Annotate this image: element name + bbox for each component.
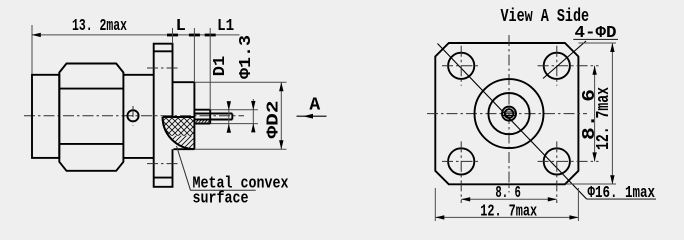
svg-text:13. 2max: 13. 2max (72, 17, 127, 36)
svg-text:12. 7max: 12. 7max (480, 203, 537, 222)
center boss outer circle (475, 79, 544, 148)
right arrow of 13.2max + L left arrow (meeting bold tick) (167, 34, 178, 37)
bolt hole bottom-right (544, 148, 570, 174)
flange hole centerline bottom (147, 163, 179, 165)
13.2max left extension (31, 25, 33, 74)
svg-text:4-ΦD: 4-ΦD (575, 24, 617, 43)
dielectric edges + extensions (194, 109, 210, 111)
right dimension 12.7max (vertical) (611, 43, 613, 184)
D1 dimension line (228, 101, 230, 132)
bushing face (193, 82, 195, 149)
L/L1 meeting arrows tick (189, 34, 200, 37)
square flange outline with chamfered corners (435, 43, 578, 184)
bottom dimension 8.6 (461, 198, 557, 200)
label Ф16.1max with underline (587, 198, 656, 200)
dielectric tip edge (209, 110, 211, 124)
dielectric section hatch (195, 120, 211, 124)
svg-text:D1: D1 (211, 56, 230, 76)
right dimension 8.6 (vertical) (594, 66, 596, 162)
leader line to metal convex surface (177, 146, 191, 190)
extension line at dielectric tip (209, 28, 211, 110)
svg-text:surface: surface (193, 189, 249, 208)
svg-text:L: L (176, 17, 186, 36)
bushing bottom edge + ФD2 bottom extension (174, 148, 195, 150)
flange chamfer line top (154, 50, 173, 52)
bolt hole top-right (544, 53, 570, 79)
rear cap cylinder (32, 75, 59, 158)
extension line at flange right edge (172, 28, 174, 44)
hex upper flat line (59, 88, 123, 90)
ФD2 dimension line (280, 82, 282, 149)
hex lower flat line (59, 143, 123, 145)
bolt hole bottom-left (448, 148, 474, 174)
hole circle vertical centerline tick (132, 106, 134, 126)
svg-text:Φ1.3: Φ1.3 (237, 35, 256, 79)
flange chamfer line bottom (154, 177, 173, 179)
left arrow of 13.2max (32, 33, 41, 37)
svg-text:8. 6: 8. 6 (495, 184, 520, 203)
Ф1.3 dimension line (252, 99, 254, 131)
bottom dimension 12.7max (435, 216, 578, 218)
svg-text:A: A (309, 96, 320, 116)
bump crosshatch upper zone (112, 94, 321, 172)
pin tip edge (231, 114, 233, 120)
svg-text:Φ16. 1max: Φ16. 1max (588, 184, 656, 203)
flange plate (side view) (154, 44, 173, 187)
L1 right arrows tick (205, 34, 216, 37)
svg-text:ΦD2: ΦD2 (265, 101, 284, 139)
svg-text:12. 7max: 12. 7max (594, 87, 614, 150)
label 4-ФD with leader (543, 41, 586, 79)
metal convex bump outline (quarter round) (163, 117, 195, 149)
diagonal leader through holes to Ф16.1max (438, 44, 587, 200)
hex nut body (59, 64, 123, 171)
center pin edges (194, 113, 232, 115)
barrel between hex and flange (123, 74, 153, 76)
small hole circle on barrel (127, 110, 138, 121)
center contact inner circle (505, 109, 514, 118)
center contact outer circle (502, 107, 516, 121)
12.7max bottom extension lines (434, 188, 436, 221)
vertical centerline (508, 35, 510, 193)
top dimension line 13.2max / L / L1 (32, 34, 240, 36)
bushing top edge + ФD2 top extension (173, 81, 195, 83)
12.7max right extension lines (578, 42, 616, 44)
bump arc redraw (163, 117, 195, 149)
flange hole centerline top (147, 67, 179, 69)
horizontal centerline (427, 113, 587, 115)
bolt hole top-left (448, 53, 474, 79)
svg-text:L1: L1 (217, 17, 234, 36)
main centerline (24, 115, 244, 117)
center inner circle (488, 93, 529, 134)
extension line at bushing face (193, 28, 195, 82)
